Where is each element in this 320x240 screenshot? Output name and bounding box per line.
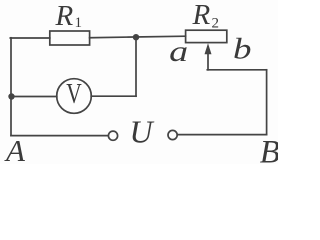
svg-text:2: 2 bbox=[212, 16, 220, 32]
node junction top bbox=[133, 34, 139, 40]
op-amp none: voltmeter left wire bbox=[11, 96, 57, 98]
wire rheostat wiper stem bbox=[207, 51, 209, 70]
svg-text:A: A bbox=[4, 133, 26, 164]
wire right bottom to terminal bbox=[177, 134, 266, 136]
svg-text:U: U bbox=[130, 114, 155, 150]
wire wiper to right bbox=[207, 69, 266, 71]
wire left vertical bbox=[10, 38, 12, 136]
svg-text:B: B bbox=[260, 135, 278, 165]
svg-text:a: a bbox=[169, 36, 188, 68]
label R2 bbox=[192, 0, 220, 32]
wire node down to voltmeter branch bbox=[135, 37, 137, 96]
svg-text:R: R bbox=[192, 0, 211, 31]
svg-text:R: R bbox=[55, 0, 74, 32]
terminal right open circle bbox=[168, 130, 177, 139]
resistor R2 rheostat body bbox=[186, 30, 227, 42]
wire R1 to R2 through node bbox=[90, 36, 186, 38]
wire top left to R1 bbox=[10, 37, 50, 39]
node junction left bbox=[8, 93, 14, 99]
wire right vertical bbox=[266, 70, 268, 135]
svg-text:b: b bbox=[233, 34, 252, 66]
wire bottom left bbox=[11, 135, 108, 137]
wire voltmeter to vertical bbox=[91, 95, 136, 97]
svg-text:1: 1 bbox=[75, 15, 83, 31]
wire wiper arrowhead bbox=[205, 43, 212, 54]
terminal left open circle bbox=[108, 131, 117, 140]
voltmeter V bbox=[57, 79, 92, 114]
label R1 bbox=[55, 0, 83, 32]
resistor R1 bbox=[50, 31, 90, 45]
svg-text:V: V bbox=[66, 79, 82, 110]
